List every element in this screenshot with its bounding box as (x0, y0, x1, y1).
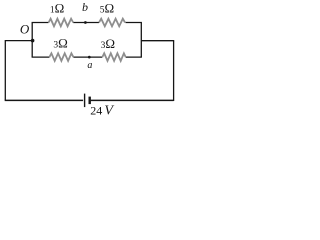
resistor 5 ohm (top right) (99, 19, 125, 27)
node b junction dot (84, 21, 87, 24)
svg-text:V: V (104, 103, 114, 118)
resistor 1 ohm (top left) (49, 19, 74, 27)
battery 24 V: short thick negative plate (88, 97, 90, 105)
node a junction dot (88, 56, 91, 59)
wire bottom left segment to battery (5, 99, 83, 101)
svg-text:b: b (82, 0, 88, 14)
wire top branch left segment (32, 22, 49, 24)
resistor 3 ohm (middle left) (49, 53, 73, 61)
wire top branch middle segment through node b (73, 22, 99, 24)
wire top branch right segment (126, 22, 142, 24)
resistor 3 ohm (middle right) (102, 53, 125, 61)
wire left bus vertical (31, 23, 33, 58)
node O junction dot (31, 39, 35, 43)
wire bottom right segment from battery (91, 99, 174, 101)
battery 24 V: long thin positive plate (84, 94, 86, 108)
wire right mid horizontal (141, 40, 174, 42)
wire middle branch right segment (126, 56, 142, 58)
svg-text:a: a (87, 60, 92, 71)
wire middle branch center segment through node a (73, 56, 102, 58)
wire middle branch left segment (32, 56, 50, 58)
wire left edge vertical (4, 40, 6, 100)
wire left mid horizontal from node O to left edge (5, 40, 32, 42)
wire right edge vertical (173, 41, 175, 101)
wire right bus vertical (140, 23, 142, 58)
svg-text:24: 24 (90, 104, 102, 118)
svg-text:O: O (20, 22, 30, 37)
